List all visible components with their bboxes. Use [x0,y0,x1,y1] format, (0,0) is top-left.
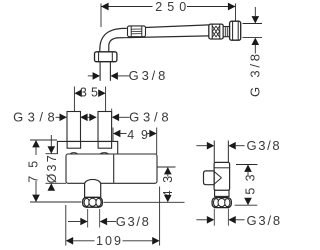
hose neck [223,27,229,37]
angle valve top pipe [214,141,228,163]
dimension 35 [74,85,105,136]
svg-text:G3/8: G3/8 [247,213,281,228]
angle valve body [214,162,230,190]
label G3/8 angle valve bottom [196,209,280,228]
hose crimp sleeve left [128,26,146,37]
dimension G3/8 right of hose (vertical) [243,7,263,97]
svg-text:G3/8: G3/8 [13,109,55,124]
hose tail pipe [100,62,110,81]
svg-text:250: 250 [155,0,186,14]
label G3/8 hose tail [88,68,166,83]
dimension diameter 37 [45,135,66,191]
dimension 43 [104,167,185,202]
svg-text:G3/8: G3/8 [116,214,149,229]
hose crimp sleeve right [209,24,223,39]
svg-text:109: 109 [96,234,121,248]
svg-text:G3/8: G3/8 [247,138,280,153]
svg-text:G3/8: G3/8 [129,110,169,125]
valve body inlet pipes [67,112,112,142]
dimension 109 [66,187,160,249]
angle valve bottom nut [212,190,231,207]
hose nut right [230,21,241,40]
hose nut left [95,52,117,62]
label G3/8 outlet [68,209,149,229]
dimension 75 [26,140,81,202]
dimension 53 [235,165,258,206]
svg-text:G 3/8: G 3/8 [247,54,262,97]
angle valve left outlet [204,171,222,185]
label G3/8 angle valve top [196,138,279,153]
svg-text:Ø37: Ø37 [45,155,59,183]
svg-text:G3/8: G3/8 [129,68,166,83]
valve main cylinder [66,153,157,184]
outlet stub [85,179,101,197]
dimension 49 [113,128,157,155]
outlet nut [83,197,103,207]
dimension 250 [101,0,236,27]
hose elbow [100,25,209,52]
label G3/8 left inlet [13,109,169,125]
valve body upper block [57,141,117,154]
